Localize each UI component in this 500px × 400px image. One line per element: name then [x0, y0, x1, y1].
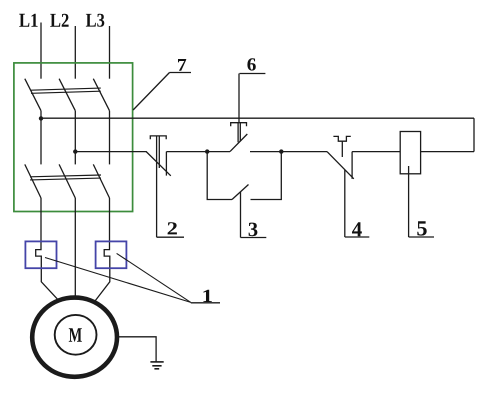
leader line from label 7 to enclosure [133, 73, 169, 111]
wire L1 supply stub [40, 23, 42, 79]
leader line to label 5 [408, 166, 410, 237]
thermal relay contact 4 actuator [333, 136, 350, 141]
motor M outer circle [32, 298, 117, 377]
label 4 [345, 222, 370, 237]
wire thermal contact to coil [352, 151, 400, 153]
contactor KM pole 3 blade [93, 164, 109, 198]
phase label L2 [50, 14, 68, 27]
contactor coil 5 [400, 132, 420, 174]
label 2 [157, 222, 184, 237]
wire L2 supply stub [74, 26, 76, 79]
circuit breaker QF pole 2 blade [59, 79, 75, 111]
wire control line from L2 node to stop button [75, 151, 146, 153]
label 5 [409, 221, 434, 237]
leader line from label 6 to start button [238, 74, 240, 123]
thermal relay contact 4 stem [341, 141, 343, 157]
motor M inner circle [55, 315, 97, 355]
wire L1 mid segment [40, 111, 42, 165]
junction node on L1 [39, 116, 43, 120]
start button 6 blade [230, 134, 247, 152]
auxiliary contact 3 blade [232, 185, 249, 200]
wire L1 to thermal element with heater jog [36, 198, 58, 299]
circuit breaker QF linkage bar [31, 88, 101, 93]
label 7 [170, 59, 192, 73]
phase label L1 [19, 14, 37, 27]
stop button 2 blade [146, 152, 171, 176]
leader line to label 4 [344, 170, 346, 237]
circuit breaker QF pole 1 blade [25, 79, 41, 111]
wire motor to ground [118, 337, 156, 362]
label 3 [241, 223, 267, 238]
thermal element box 1 (left) [25, 241, 56, 268]
junction node left of start button [205, 149, 209, 153]
stop button 2 actuator bar [150, 136, 166, 139]
auxiliary contact 3 left branch [207, 152, 232, 200]
wire stop button to start button [166, 151, 230, 153]
circuit breaker QF pole 3 blade [93, 79, 109, 111]
wire L3 mid segment [109, 111, 111, 165]
motor M letter [69, 328, 82, 342]
contactor KM linkage bar [30, 175, 101, 180]
auxiliary contact 3 right branch [251, 152, 282, 200]
label 1 [191, 290, 220, 303]
phase label L3 [86, 14, 104, 27]
wire right rail down [473, 118, 475, 151]
wire L2 mid segment [74, 111, 76, 165]
leader line to label 3 [240, 192, 242, 238]
junction node right of start button [279, 149, 283, 153]
leader line from right thermal element to label 1 [117, 253, 191, 302]
start button 6 stem [238, 123, 240, 143]
wire L3 supply stub [109, 26, 111, 79]
wire coil to right rail [421, 151, 474, 153]
thermal relay contact 4 blade [327, 152, 354, 179]
leader line from left thermal element to label 1 [45, 258, 191, 303]
thermal element box 1 (right) [96, 241, 127, 268]
contactor KM pole 2 blade [59, 164, 75, 198]
ground symbol [150, 362, 163, 369]
stop button 2 stem and leader to label 2 [157, 136, 160, 237]
wire L2 down to motor [74, 198, 76, 296]
stop button 2 right terminal [165, 152, 167, 176]
wire top control line [41, 117, 474, 119]
starter enclosure box (device 7) [14, 63, 133, 212]
label 6 [240, 58, 266, 73]
contactor KM pole 1 blade [25, 164, 41, 198]
thermal relay contact 4 right terminal [351, 152, 353, 179]
wire start button to thermal contact [250, 151, 327, 153]
wire L3 to thermal element with heater jog [95, 198, 110, 301]
start button 6 actuator bar [231, 123, 247, 127]
junction node on L2 [73, 149, 77, 153]
